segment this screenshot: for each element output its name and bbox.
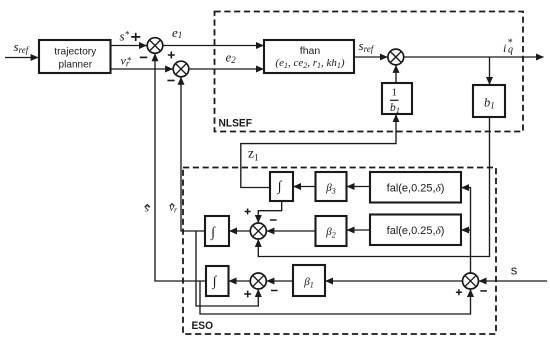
wire integrator 2 output to J2 (v_r hat feedback) bbox=[181, 77, 205, 231]
integrator block A bbox=[270, 172, 293, 201]
svg-text:*: * bbox=[127, 56, 132, 66]
wire s_ref input bbox=[5, 57, 38, 59]
wire JE to output i_q* bbox=[404, 56, 544, 58]
block b1 bbox=[473, 85, 505, 117]
wire JB to integrator 2 bbox=[230, 230, 251, 232]
integrator block 3 bbox=[206, 266, 229, 296]
wire JD to beta1 bbox=[326, 280, 463, 282]
label minus at JB right bbox=[270, 219, 277, 221]
block fal A bbox=[370, 172, 461, 203]
block 1/b1 bbox=[382, 83, 412, 115]
wire falA to beta3 bbox=[347, 186, 370, 188]
wire b1 down to JB bottom bbox=[258, 117, 489, 257]
svg-text:planner: planner bbox=[59, 58, 93, 70]
label + at J1 bbox=[131, 33, 140, 41]
label + at J2 bbox=[168, 52, 175, 59]
wire v branch down to JC bottom bbox=[196, 231, 258, 306]
svg-text:q: q bbox=[508, 45, 513, 56]
wire s input to JD bbox=[479, 280, 547, 282]
wire fhan to junction JE bbox=[354, 56, 387, 58]
block beta2 bbox=[316, 216, 347, 246]
label minus at J2 bbox=[167, 80, 174, 82]
wire stub JD vertical to falB bbox=[462, 229, 471, 231]
wire s-hat branch to JD bottom bbox=[200, 281, 471, 314]
label i_q* bbox=[503, 38, 513, 56]
summing junction J1 bbox=[147, 38, 163, 54]
wire JC to integrator 3 bbox=[229, 280, 250, 282]
block beta3 bbox=[316, 172, 347, 201]
wire planner to junction J1 bbox=[111, 45, 147, 47]
block trajectory planner bbox=[39, 40, 111, 73]
summing junction JC bbox=[250, 273, 266, 289]
svg-text:fhan: fhan bbox=[300, 45, 321, 57]
label minus at J1 bbox=[140, 56, 148, 58]
wire beta2 to JB bbox=[267, 230, 316, 232]
summing junction JB bbox=[250, 223, 266, 239]
ESO dashed box bbox=[183, 168, 496, 335]
wire J1 to fhan (e1) bbox=[163, 45, 264, 47]
summing junction JD bbox=[463, 273, 479, 289]
NLSEF dashed box bbox=[215, 12, 524, 132]
svg-text:i: i bbox=[503, 41, 506, 55]
block fal B bbox=[370, 215, 461, 246]
svg-text:s: s bbox=[511, 263, 518, 278]
svg-text:trajectory: trajectory bbox=[54, 46, 97, 58]
wire z1 path: integrator A output to 1/b1 bbox=[241, 115, 396, 188]
wire integrator A bottom to JB top bbox=[258, 201, 281, 223]
integrator block 2 bbox=[205, 216, 229, 246]
wire planner to junction J2 bbox=[111, 68, 173, 70]
label + at JD bottom bbox=[456, 289, 462, 295]
label + at JB top bbox=[245, 209, 251, 215]
summing junction J2 bbox=[173, 61, 189, 77]
label minus at JC right bbox=[271, 290, 278, 292]
svg-text:fal(e,0.25,δ): fal(e,0.25,δ) bbox=[387, 182, 445, 194]
wire falB to beta2 bbox=[347, 229, 370, 231]
svg-text:NLSEF: NLSEF bbox=[219, 118, 253, 130]
svg-text:fal(e,0.25,δ): fal(e,0.25,δ) bbox=[387, 225, 445, 237]
wire beta1 to JC bbox=[267, 280, 293, 282]
multiplier junction JE bbox=[388, 49, 404, 65]
wire J2 to fhan (e2) bbox=[189, 68, 264, 70]
block beta1 bbox=[293, 265, 325, 296]
svg-text:ESO: ESO bbox=[192, 320, 214, 332]
wire integrator 3 output to J1 (s hat feedback) bbox=[155, 54, 206, 281]
label minus at JD right bbox=[480, 290, 487, 292]
svg-text:1: 1 bbox=[391, 86, 397, 98]
block fhan bbox=[264, 40, 354, 73]
wire 1/b1 up to JE bbox=[395, 65, 397, 83]
wire beta3 to integrator A bbox=[294, 186, 316, 188]
wire JD up to fal boxes bbox=[462, 188, 471, 273]
wire branch down into b1 bbox=[489, 57, 491, 85]
label + at JC bottom bbox=[244, 291, 251, 298]
